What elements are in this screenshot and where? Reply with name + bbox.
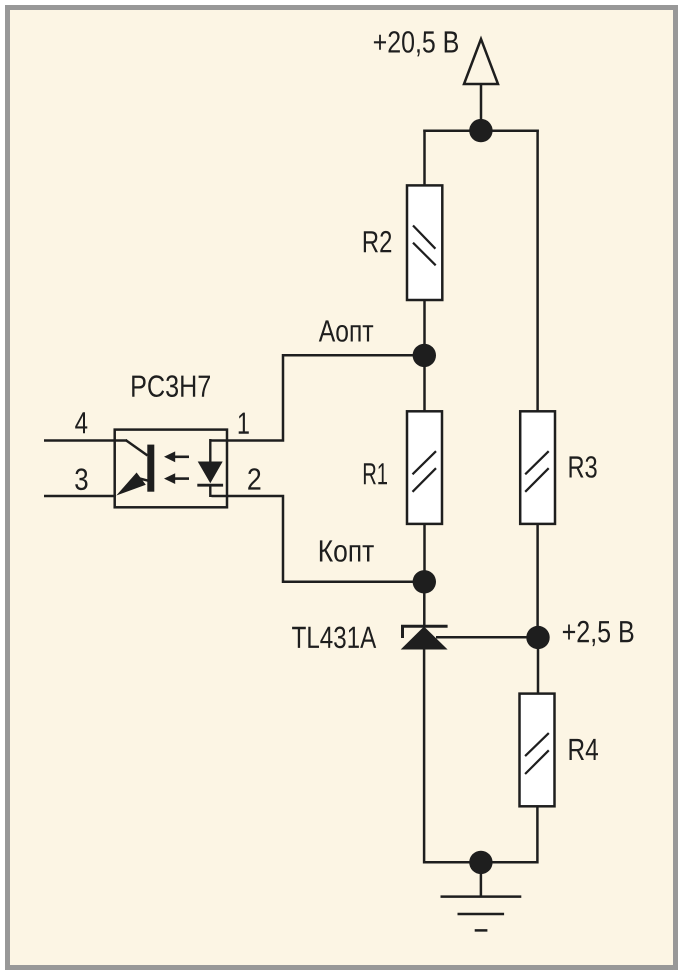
ground bar 2 — [458, 913, 505, 916]
node Aopt — [413, 344, 436, 367]
wire: node Kopt branch to optocoupler pin 2 — [212, 496, 426, 582]
TL431A triangle — [401, 627, 448, 650]
wire: node Aopt branch to optocoupler pin 1 — [212, 355, 426, 440]
photon arrow 1 — [164, 451, 175, 462]
label 3 — [75, 468, 87, 490]
optocoupler U1 body — [115, 430, 227, 508]
node +2,5 V — [526, 626, 549, 649]
phototransistor emitter arrow — [116, 473, 146, 496]
wire: power triangle to top node — [480, 84, 483, 131]
wire: R3 to node +2,5 V — [536, 523, 539, 639]
label R4 — [570, 739, 599, 760]
phototransistor base bar — [147, 445, 154, 492]
wire: pin 3 lead — [44, 495, 116, 498]
wire: top rail down to R2 — [423, 130, 426, 188]
phototransistor collector line — [126, 440, 148, 456]
label +2,5 В — [563, 621, 634, 646]
label R3 — [570, 456, 597, 478]
ground bar 3 — [475, 929, 488, 932]
resistor R4 body — [520, 694, 555, 807]
power symbol +20,5 V triangle — [464, 39, 498, 84]
wire: node +2,5 V to R4 — [537, 637, 540, 696]
TL431A cathode bar — [401, 625, 448, 628]
label +20,5 В — [374, 31, 458, 56]
wire: top rail down to R3 — [536, 130, 539, 414]
wire: node Aopt to R1 — [423, 354, 426, 413]
resistor R2 body — [407, 185, 442, 300]
wire: R1 to node Kopt — [423, 523, 426, 583]
wire: R4 to bottom node — [480, 806, 537, 863]
resistor R3 body — [520, 411, 555, 524]
wire: node Kopt to TL431A cathode — [423, 580, 426, 627]
phototransistor emitter stub — [139, 478, 152, 481]
wire: bottom node to ground — [480, 861, 483, 897]
wire: TL431A ref to node +2,5 V — [436, 636, 538, 639]
label R2 — [364, 231, 391, 252]
node: top rail junction — [469, 119, 492, 142]
node: bottom junction — [469, 851, 492, 874]
label R1 — [364, 463, 387, 484]
label PC3H7 — [132, 375, 210, 397]
label TL431A — [292, 627, 376, 649]
label 2 — [248, 468, 260, 489]
wire: R2 to node Aopt — [423, 299, 426, 356]
node Kopt — [413, 570, 436, 593]
resistor R1 slashes — [413, 451, 437, 474]
wire: TL431A anode to bottom node — [424, 649, 481, 863]
LED anode lead — [209, 439, 211, 463]
resistor R1 body — [407, 411, 442, 524]
wire: top horizontal rail — [423, 129, 539, 132]
TL431A cathode bar tick — [401, 625, 404, 638]
photon arrow 2 — [164, 473, 175, 484]
wire: pin 4 lead — [44, 439, 127, 442]
LED cathode bar — [197, 484, 223, 487]
label 1 — [239, 413, 249, 434]
resistor R4 slashes — [525, 733, 549, 756]
label 4 — [75, 412, 87, 433]
label Копт — [320, 540, 374, 561]
resistor R3 slashes — [525, 451, 549, 474]
LED triangle — [198, 462, 223, 484]
LED cathode lead — [209, 485, 211, 497]
resistor R2 slashes — [413, 226, 435, 249]
ground bar 1 — [441, 895, 522, 898]
label Аопт — [319, 320, 373, 341]
